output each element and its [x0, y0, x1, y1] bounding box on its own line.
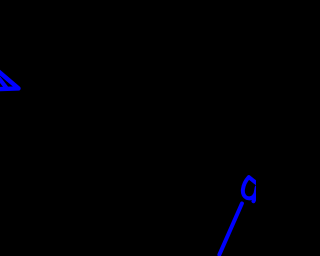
wire / diagonal stroke [219, 204, 242, 255]
fold line inside triangle [0, 75, 6, 88]
send-icon triangle (cut off at left edge) [0, 68, 19, 90]
letter u glyph (cut off at right edge) [243, 177, 258, 198]
letter u right stem [254, 187, 257, 201]
